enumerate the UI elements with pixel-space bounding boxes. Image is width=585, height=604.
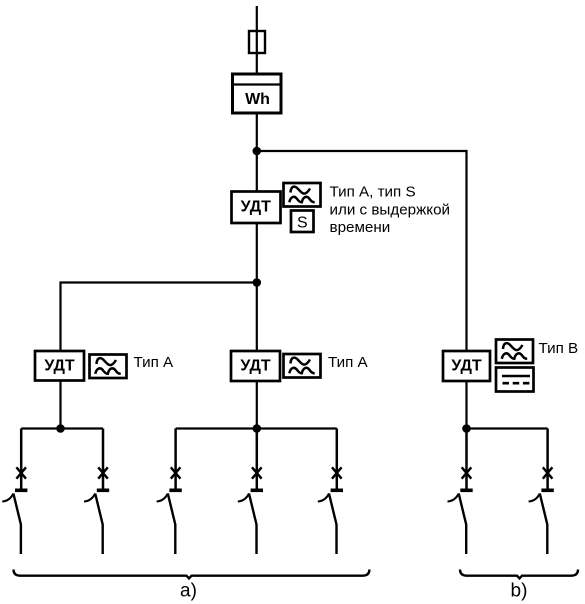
- RCD UDT3 (center, type A): [231, 351, 280, 381]
- RCD UDT4 (right, type B): [443, 351, 490, 381]
- wire: center bus: [176, 427, 337, 429]
- label: Tip A, tip S ...: [330, 184, 451, 237]
- circuit breaker QF2: [84, 429, 109, 555]
- wire: UDT4 to right bus: [465, 381, 467, 429]
- circuit breaker QF4: [238, 429, 263, 555]
- symbol: type A wave box (UDT3): [284, 354, 321, 378]
- svg-text:УДТ: УДТ: [241, 199, 272, 216]
- brace b: [460, 570, 578, 579]
- svg-text:УДТ: УДТ: [44, 358, 75, 375]
- wire: incoming supply top: [256, 6, 258, 74]
- wire: UDT1 down: [256, 223, 258, 351]
- wire: Wh to UDT1: [256, 113, 258, 192]
- svg-text:S: S: [297, 215, 308, 232]
- svg-text:Тип B: Тип B: [539, 340, 579, 357]
- svg-text:Тип A: Тип A: [134, 354, 175, 371]
- brace a: [14, 570, 370, 579]
- circuit breaker QF5: [318, 429, 343, 555]
- svg-text:Тип A: Тип A: [328, 354, 369, 371]
- symbol: type A wave box (UDT4): [496, 340, 533, 364]
- wire: left branch: [61, 283, 257, 352]
- svg-text:Wh: Wh: [245, 91, 270, 108]
- svg-text:b): b): [511, 581, 528, 602]
- circuit breaker QF7: [529, 429, 554, 555]
- node: left bus junction: [56, 424, 65, 433]
- symbol: type A wave box (UDT1): [284, 183, 321, 207]
- symbol: type A wave box (UDT2): [90, 355, 127, 379]
- node: main tap junction: [252, 147, 261, 156]
- circuit breaker QF6: [448, 429, 473, 555]
- RCD UDT1 (main): [232, 192, 281, 224]
- svg-text:УДТ: УДТ: [240, 358, 271, 375]
- svg-text:a): a): [180, 581, 197, 602]
- svg-text:УДТ: УДТ: [451, 358, 482, 375]
- symbol: S (selective) box: [291, 211, 314, 233]
- circuit breaker QF3: [157, 429, 182, 555]
- RCD UDT2 (left, type A): [35, 351, 84, 381]
- wire: left bus: [21, 427, 103, 429]
- symbol: DC box (UDT4): [496, 368, 534, 392]
- wire: right bus: [467, 427, 548, 429]
- fuse F1: [249, 31, 265, 53]
- wire: UDT2 to left bus: [59, 381, 61, 429]
- node: center bus junction: [252, 424, 261, 433]
- svg-text:Тип A, тип S: Тип A, тип S: [330, 184, 416, 201]
- svg-text:времени: времени: [330, 219, 391, 236]
- meter Wh: [233, 74, 282, 113]
- svg-text:или с выдержкой: или с выдержкой: [330, 201, 451, 218]
- node: right bus junction: [462, 424, 471, 433]
- node: split to left branch: [252, 278, 261, 287]
- wire: UDT3 to center bus: [256, 381, 258, 429]
- circuit breaker QF1: [2, 429, 27, 555]
- wire: branch to group b: [257, 151, 467, 351]
